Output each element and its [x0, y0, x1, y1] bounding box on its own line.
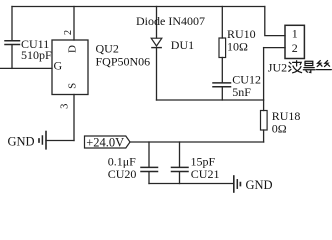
label RU18 value [272, 109, 301, 136]
svg-text:S: S [66, 83, 78, 89]
svg-text:0Ω: 0Ω [272, 121, 287, 135]
resistor RU18 [261, 111, 268, 131]
svg-text:5nF: 5nF [232, 85, 251, 99]
svg-text:G: G [54, 59, 63, 73]
power flag +24.0V outline [85, 136, 131, 148]
connector JU2 box [285, 25, 304, 58]
wire drain pin 2 [73, 7, 75, 41]
connector pin numbers 1 2 [292, 27, 298, 55]
svg-text:+24.0V: +24.0V [86, 136, 124, 150]
wire diode bottom lead [156, 48, 158, 100]
svg-text:CU21: CU21 [191, 167, 220, 181]
wire CU20 top lead [148, 142, 150, 167]
wire pin2 vertical to RU18 [263, 48, 265, 111]
capacitor CU21 [172, 166, 189, 168]
ground GND right symbol bars [233, 176, 235, 192]
svg-text:D: D [67, 45, 79, 53]
svg-text:1: 1 [292, 27, 298, 41]
CJK char bo (wave) [289, 61, 302, 73]
wire +24V rail [130, 141, 264, 143]
label CU21 value [191, 155, 220, 181]
svg-text:DU1: DU1 [171, 38, 194, 52]
wire diode top lead [156, 7, 158, 39]
ground GND left symbol bars [45, 132, 47, 149]
wire CU11 bottom lead [11, 45, 13, 68]
wire source pin 3 down to gnd rail [73, 95, 75, 141]
capacitor CU11 [5, 40, 20, 42]
wire CU21 bottom lead [179, 172, 181, 184]
capacitor CU20 [141, 166, 158, 168]
svg-text:510pF: 510pF [21, 48, 52, 62]
label CU11 value [21, 37, 52, 62]
label QU2 designator [96, 42, 151, 69]
svg-text:FQP50N06: FQP50N06 [96, 55, 151, 69]
svg-text:GND: GND [8, 135, 35, 149]
svg-text:JU2: JU2 [268, 60, 287, 74]
wire gate net from page edge to G pin [0, 67, 52, 69]
svg-text:QU2: QU2 [96, 42, 119, 56]
wire pin1 drop and stub [265, 7, 285, 36]
svg-text:CU20: CU20 [108, 167, 137, 181]
wire gnd-left horizontal [46, 140, 74, 142]
wire left drop to CU11 [11, 7, 13, 41]
wire RU10 to CU12 [221, 58, 223, 83]
wire CU12 bottom lead [221, 87, 223, 100]
label CU12 value [232, 72, 261, 99]
wire CU21 top lead [179, 142, 181, 167]
wire RU10 top lead [221, 7, 223, 39]
svg-text:2: 2 [292, 41, 298, 55]
wire RU18 bottom lead [263, 130, 265, 142]
CJK char dao (guide) [303, 61, 315, 72]
wire bottom gnd rail [149, 183, 234, 185]
wire pin2 stub [264, 47, 285, 49]
transistor Q U2 body box [52, 40, 88, 95]
wire mid rail (anode / pin2 net) [157, 99, 264, 101]
CJK char si (wire) [317, 61, 332, 70]
svg-text:2: 2 [63, 30, 74, 35]
svg-text:10Ω: 10Ω [227, 40, 248, 54]
wire top rail (node drain / pin1 net) [12, 6, 265, 8]
svg-text:3: 3 [59, 104, 70, 109]
capacitor CU12 [213, 82, 231, 84]
diode DU1 [151, 38, 162, 46]
label CU20 value [108, 155, 137, 181]
resistor RU10 [219, 38, 226, 58]
svg-text:Diode IN4007: Diode IN4007 [136, 14, 205, 28]
label RU10 value [227, 27, 256, 54]
svg-text:GND: GND [246, 178, 273, 192]
wire CU20 bottom lead [148, 172, 150, 184]
